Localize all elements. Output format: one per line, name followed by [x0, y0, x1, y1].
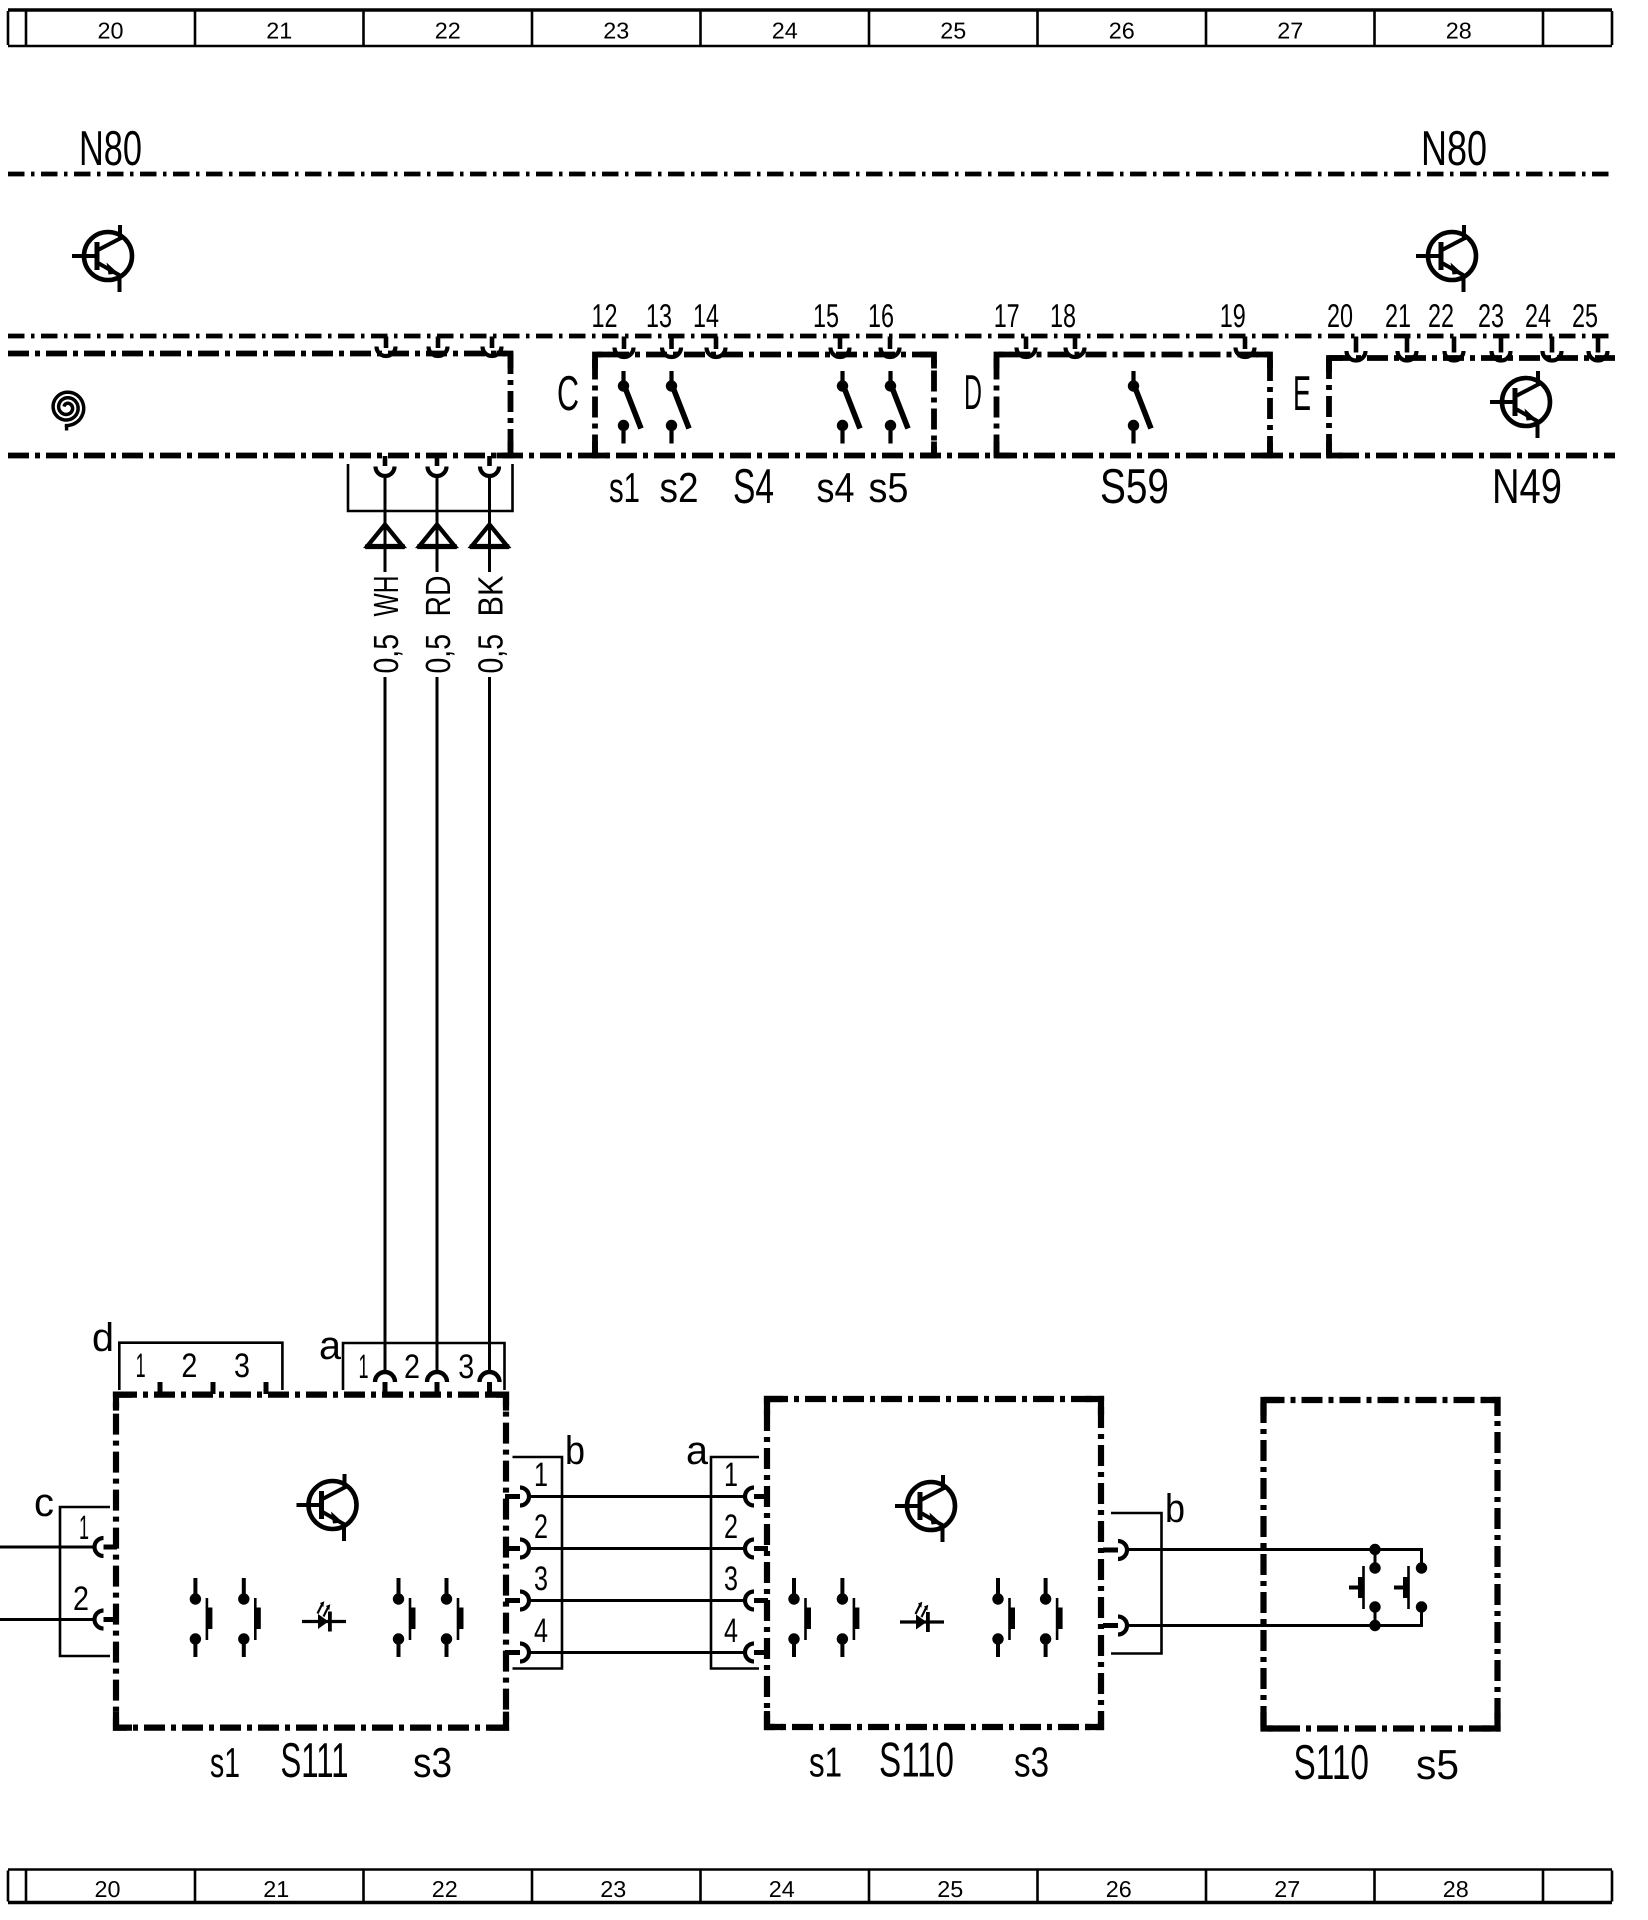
switch contact s4 in C: [837, 371, 860, 444]
svg-text:4: 4: [534, 1612, 548, 1650]
pin on left box top 1: [384, 337, 389, 349]
transistor symbol in S111: [297, 1474, 357, 1541]
connector c shell: [60, 1507, 110, 1656]
LED in S110: [900, 1602, 944, 1632]
switch unit S110 s5 box border: [1264, 1400, 1498, 1729]
switch contact s1 in C: [618, 371, 641, 444]
wire S111 b2 to S110 a2: [529, 1547, 745, 1550]
connector d pin stubs: [158, 1382, 163, 1394]
switch contact s1a in S111: [190, 1578, 213, 1657]
switch contact s3a in S110: [992, 1578, 1015, 1657]
svg-text:s5: s5: [869, 464, 909, 511]
svg-text:1: 1: [724, 1456, 738, 1494]
svg-text:19: 19: [1220, 297, 1246, 334]
connector box E border: left edge: [1326, 358, 1332, 455]
direction arrow wire RD: [420, 525, 455, 547]
svg-text:a: a: [319, 1324, 342, 1368]
wire 0,5 RD long segment down to S111: [436, 677, 439, 1373]
svg-text:s4: s4: [817, 464, 855, 511]
svg-text:14: 14: [693, 297, 719, 334]
wire into S111 c pin 1: [0, 1546, 94, 1549]
svg-text:S110: S110: [1294, 1736, 1370, 1790]
svg-text:N80: N80: [1421, 122, 1487, 176]
svg-text:0,5: 0,5: [367, 634, 406, 674]
svg-text:0,5: 0,5: [419, 634, 458, 674]
transistor symbol in S110: [895, 1475, 955, 1542]
svg-text:1: 1: [359, 1348, 369, 1386]
pin on left box top 3: [490, 337, 495, 349]
switch unit S111 box border: [116, 1395, 506, 1728]
svg-text:1: 1: [79, 1509, 89, 1547]
svg-text:b: b: [565, 1429, 585, 1473]
svg-text:2: 2: [404, 1348, 420, 1386]
switch contact s1b in S111: [238, 1578, 261, 1657]
svg-text:D: D: [964, 366, 982, 420]
wire left box right edge: [508, 353, 514, 455]
svg-text:26: 26: [1109, 18, 1135, 44]
svg-text:N49: N49: [1492, 460, 1562, 514]
svg-text:27: 27: [1277, 18, 1303, 44]
svg-text:23: 23: [603, 18, 629, 44]
wire S111 b3 to S110 a3: [529, 1599, 745, 1602]
junction dot s5 top: [1369, 1544, 1380, 1555]
connector b socket cup 2: [520, 1540, 529, 1558]
svg-text:2: 2: [181, 1347, 197, 1385]
svg-text:d: d: [92, 1316, 114, 1360]
LED in S111: [302, 1601, 346, 1631]
svg-text:23: 23: [1478, 297, 1504, 334]
svg-text:17: 17: [994, 297, 1020, 334]
svg-text:20: 20: [1327, 297, 1353, 334]
wire S111 b1 to S110 a1: [529, 1495, 745, 1498]
wire s5 top right branch: [1375, 1550, 1422, 1564]
connector b socket cup 1 (S110): [1118, 1541, 1127, 1559]
connector b socket cup 2 (S110): [1118, 1617, 1127, 1635]
wire into S111 c pin 2: [0, 1618, 94, 1621]
wire 0,5 BK upper segment: [488, 476, 491, 572]
svg-text:s1: s1: [609, 464, 640, 511]
svg-text:s5: s5: [1416, 1741, 1459, 1788]
svg-text:25: 25: [937, 1876, 963, 1902]
connector shell bracket: [348, 464, 513, 511]
svg-text:28: 28: [1446, 18, 1472, 44]
connector c socket cup 1: [95, 1538, 104, 1556]
svg-text:2: 2: [534, 1508, 548, 1546]
svg-text:4: 4: [724, 1612, 738, 1650]
coil spring symbol: [53, 392, 84, 425]
connector a socket cup: [480, 1372, 500, 1382]
svg-text:BK: BK: [472, 576, 511, 617]
connector b shell (S111): [513, 1457, 563, 1669]
wire N80 top border dash-dot line: [8, 172, 1609, 177]
bottom ruler: [8, 1868, 1612, 1871]
wire s5 left column top: [1374, 1550, 1377, 1564]
svg-text:21: 21: [1385, 297, 1411, 334]
wire s5 bottom right branch: [1375, 1612, 1422, 1626]
svg-text:22: 22: [1428, 297, 1454, 334]
switch contact s5 right in s5 box: [1416, 1562, 1427, 1573]
connector b socket cup 3: [520, 1592, 529, 1610]
wire N80 bottom border dash-dot line: [8, 334, 1609, 339]
svg-text:RD: RD: [419, 576, 458, 617]
svg-text:S110: S110: [879, 1734, 954, 1788]
svg-text:b: b: [1165, 1487, 1185, 1531]
connector a socket cup 2 (S110): [745, 1540, 754, 1558]
svg-text:N80: N80: [79, 122, 142, 176]
wire S111 b4 to S110 a4: [529, 1651, 745, 1654]
svg-text:3: 3: [234, 1347, 250, 1385]
wire 0,5 WH long segment down to S111: [384, 677, 387, 1373]
svg-text:22: 22: [435, 18, 461, 44]
svg-text:1: 1: [534, 1456, 548, 1494]
svg-text:22: 22: [432, 1876, 458, 1902]
connector box E border: top line: [1329, 355, 1615, 361]
switch contact s1a in S110: [788, 1578, 811, 1657]
svg-text:2: 2: [724, 1508, 738, 1546]
svg-text:S4: S4: [733, 460, 774, 514]
connector d shell: [119, 1343, 282, 1390]
svg-text:23: 23: [600, 1876, 626, 1902]
switch contact s3b in S111: [441, 1578, 464, 1657]
switch contact s3b in S110: [1040, 1578, 1063, 1657]
svg-text:24: 24: [772, 18, 798, 44]
switch contact in D (S59): [1128, 371, 1151, 444]
svg-text:12: 12: [592, 297, 618, 334]
wire 0,5 RD upper segment: [436, 476, 439, 572]
svg-text:25: 25: [1572, 297, 1598, 334]
switch unit S110 box border: [767, 1399, 1101, 1727]
wire 0,5 BK long segment down to S111: [488, 677, 491, 1373]
svg-text:20: 20: [98, 18, 124, 44]
pin on left box bottom 1: [383, 456, 388, 466]
svg-text:21: 21: [263, 1876, 289, 1902]
pin on left box bottom 3: [487, 456, 492, 466]
svg-text:1: 1: [136, 1347, 146, 1385]
svg-text:3: 3: [534, 1560, 548, 1598]
transistor symbol in E (N49): [1490, 371, 1550, 438]
svg-text:26: 26: [1106, 1876, 1132, 1902]
svg-text:s2: s2: [660, 464, 699, 511]
switch contact s5 left in s5 box: [1369, 1562, 1380, 1573]
svg-text:15: 15: [813, 297, 839, 334]
svg-text:13: 13: [646, 297, 672, 334]
direction arrow wire BK: [472, 525, 507, 547]
svg-text:16: 16: [868, 297, 894, 334]
svg-text:21: 21: [266, 18, 292, 44]
svg-text:a: a: [686, 1429, 709, 1473]
svg-text:s1: s1: [210, 1739, 240, 1786]
wire S110 b2 to s5: [1128, 1624, 1376, 1627]
connector c socket cup 2: [95, 1611, 104, 1629]
connector a socket cup: [375, 1372, 395, 1382]
switch contact s5 in C: [885, 371, 908, 444]
switch contact s3a in S111: [393, 1578, 416, 1657]
svg-text:E: E: [1293, 367, 1311, 421]
connector box D border: [997, 355, 1271, 456]
connector a socket cup 3 (S110): [745, 1592, 754, 1610]
svg-text:20: 20: [95, 1876, 121, 1902]
transistor symbol in N80 left: [72, 225, 132, 292]
svg-text:24: 24: [769, 1876, 795, 1902]
direction arrow wire WH: [368, 525, 403, 547]
svg-text:s3: s3: [413, 1739, 452, 1786]
wire 0,5 WH upper segment: [384, 476, 387, 572]
svg-text:WH: WH: [367, 576, 406, 617]
svg-text:2: 2: [73, 1580, 89, 1618]
svg-text:s3: s3: [1014, 1739, 1049, 1786]
pin on left box top 2: [436, 337, 441, 349]
svg-text:0,5: 0,5: [472, 634, 511, 674]
connector a socket cup 4 (S110): [745, 1644, 754, 1662]
svg-text:24: 24: [1525, 297, 1551, 334]
wire connector boxes bottom dash-dot line: [8, 453, 1615, 459]
svg-text:28: 28: [1443, 1876, 1469, 1902]
wire S110 b1 to s5: [1128, 1548, 1376, 1551]
top ruler: [8, 8, 1612, 11]
svg-text:27: 27: [1274, 1876, 1300, 1902]
connector box C border: [595, 355, 934, 456]
svg-text:s1: s1: [809, 1739, 842, 1786]
svg-text:18: 18: [1050, 297, 1076, 334]
connector a shell (S110): [711, 1457, 759, 1669]
svg-text:3: 3: [458, 1348, 474, 1386]
svg-text:25: 25: [940, 18, 966, 44]
svg-text:3: 3: [724, 1560, 738, 1598]
svg-text:S59: S59: [1100, 460, 1169, 514]
connector a shell (S111): [343, 1343, 505, 1390]
connector a socket cup 1 (S110): [745, 1488, 754, 1506]
svg-text:c: c: [34, 1481, 54, 1525]
wire s5 left column bottom: [1374, 1612, 1377, 1626]
connector b socket cup 1: [520, 1488, 529, 1506]
svg-text:C: C: [557, 367, 579, 421]
transistor symbol in N80 right: [1416, 225, 1476, 292]
switch contact s1b in S110: [837, 1578, 860, 1657]
wire left box top dash-dot line: [8, 351, 506, 357]
svg-text:S111: S111: [281, 1734, 349, 1788]
switch contact s2 in C: [666, 371, 689, 444]
connector b socket cup 4: [520, 1644, 529, 1662]
junction dot s5 bottom: [1369, 1620, 1380, 1631]
pin on left box bottom 2: [435, 456, 440, 466]
connector b shell (S110): [1111, 1513, 1162, 1654]
connector a socket cup: [427, 1372, 447, 1382]
